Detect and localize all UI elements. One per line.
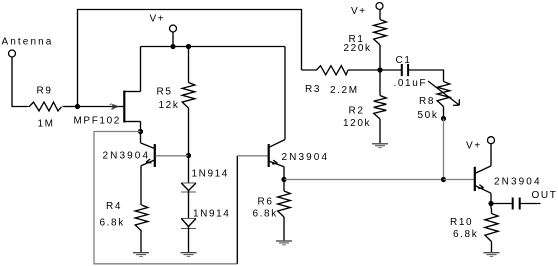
node Q2 emitter junction	[281, 177, 286, 182]
wire base node to D1	[188, 156, 190, 183]
wire emitter node to output cap	[491, 203, 513, 205]
wire V+ rail	[141, 46, 286, 48]
svg-text:MPF102: MPF102	[74, 116, 121, 127]
resistor R9	[29, 102, 62, 111]
wire V+ terminal drop	[172, 32, 174, 47]
wire rail right end down to Q2 collector	[284, 47, 286, 140]
wire R9 to gate node	[63, 106, 78, 108]
wire V+ to R1	[379, 9, 381, 19]
wire JFET drain to V+ rail	[140, 47, 142, 92]
wire R6 to ground	[283, 217, 285, 240]
wire junction to C1	[380, 69, 402, 71]
ground (R6)	[276, 241, 292, 245]
svg-text:V+: V+	[150, 14, 166, 25]
svg-text:2N3904: 2N3904	[103, 151, 151, 162]
capacitor (output)	[513, 198, 520, 210]
wire D2 to ground	[188, 229, 190, 253]
svg-text:R5: R5	[157, 87, 173, 98]
wire R1 to junction	[379, 45, 381, 70]
wire gate node up over top to R3	[78, 10, 302, 107]
svg-text:120k: 120k	[343, 118, 371, 129]
antenna terminal	[9, 50, 16, 57]
svg-text:R8: R8	[419, 96, 435, 107]
wire emitter node to R10	[490, 204, 493, 214]
node gate junction	[75, 104, 80, 109]
svg-text:6.8k: 6.8k	[253, 209, 278, 220]
resistor R5	[182, 83, 195, 109]
node V+ rail junction	[170, 44, 175, 49]
svg-text:R3: R3	[305, 84, 321, 95]
wire D1 to D2	[188, 192, 190, 219]
V+ terminal (Q3)	[488, 137, 495, 144]
wire Q1 emitter to R4	[140, 177, 142, 206]
svg-text:12k: 12k	[159, 100, 180, 111]
svg-text:R6: R6	[258, 197, 274, 208]
wire Q1 base (gray)	[156, 155, 189, 157]
svg-text:Antenna: Antenna	[2, 37, 54, 48]
svg-text:.01uF: .01uF	[394, 78, 428, 89]
node R5/Q1 base/diodes junction	[186, 153, 191, 158]
svg-text:6.8k: 6.8k	[453, 229, 478, 240]
wire Q2 base (gray)	[237, 155, 269, 157]
wire gate node to JFET gate	[78, 106, 124, 108]
ground (R4)	[133, 253, 149, 257]
wire R8 to node	[443, 107, 445, 119]
resistor R2	[374, 96, 387, 120]
svg-text:R4: R4	[106, 201, 122, 212]
node Q3 emitter junction	[488, 201, 493, 206]
wire Q2 emitter net to Q3 base (gray)	[284, 179, 444, 181]
wire to R6	[283, 180, 285, 192]
node JFET source / feedback / Q1 collector	[138, 129, 143, 134]
ground (diodes)	[181, 253, 197, 257]
wire JFET source down	[140, 122, 142, 132]
svg-text:1N914: 1N914	[192, 169, 229, 180]
transistor Q3 2N3904	[475, 144, 491, 204]
ground (R10)	[484, 253, 500, 257]
ground (R2)	[372, 144, 388, 148]
resistor R10	[485, 214, 498, 242]
transistor Q1 2N3904 (mirrored)	[141, 132, 155, 177]
wire R10 to ground	[491, 242, 493, 253]
wire R2 top lead	[379, 70, 381, 96]
svg-text:2.2M: 2.2M	[330, 85, 359, 96]
diode D2 1N914	[181, 219, 196, 229]
V+ terminal (R1)	[376, 3, 383, 10]
wire R4 to ground	[140, 231, 142, 252]
svg-text:R2: R2	[349, 106, 365, 117]
wire R5 to base node	[188, 108, 190, 156]
svg-text:2N3904: 2N3904	[494, 177, 542, 188]
resistor R4	[135, 205, 148, 231]
svg-text:1M: 1M	[38, 119, 55, 130]
svg-text:R10: R10	[450, 217, 473, 228]
svg-text:1N914: 1N914	[193, 209, 230, 220]
svg-text:V+: V+	[351, 6, 367, 17]
wire R3 to junction	[348, 69, 380, 71]
resistor R1	[374, 20, 387, 46]
wire feedback loop (gray)	[94, 132, 237, 264]
wire base node to Q3 (gray)	[444, 179, 475, 181]
svg-text:V+: V+	[466, 141, 482, 152]
svg-text:R9: R9	[37, 86, 53, 97]
wire R2 to ground	[379, 119, 381, 143]
wire rail to R5	[188, 47, 190, 83]
svg-text:220k: 220k	[344, 43, 372, 54]
wire C1 to R8	[408, 70, 443, 82]
V+ terminal (rail)	[170, 25, 177, 32]
wire R8 node down to Q3 base net	[443, 119, 445, 180]
svg-text:C1: C1	[396, 55, 412, 66]
diode D1 1N914	[181, 183, 196, 192]
wire output cap to OUT	[520, 203, 541, 205]
resistor R6	[278, 191, 291, 217]
capacitor C1	[402, 64, 408, 76]
potentiometer R8	[428, 81, 459, 107]
wire antenna to R9	[12, 57, 29, 107]
svg-text:OUT: OUT	[532, 190, 558, 201]
svg-text:50k: 50k	[418, 110, 439, 121]
node R8 wiper junction	[441, 116, 446, 121]
wire feedback loop right riser	[236, 156, 238, 264]
svg-text:6.8k: 6.8k	[100, 218, 125, 229]
node R5 top junction	[186, 44, 191, 49]
resistor R3	[302, 66, 349, 75]
transistor Q2 2N3904	[269, 140, 285, 180]
svg-text:2N3904: 2N3904	[282, 152, 330, 163]
JFET U1 MPF102	[110, 91, 141, 123]
node Q3 base junction	[441, 177, 446, 182]
node R1/R3/R2/C1 junction	[377, 67, 382, 72]
